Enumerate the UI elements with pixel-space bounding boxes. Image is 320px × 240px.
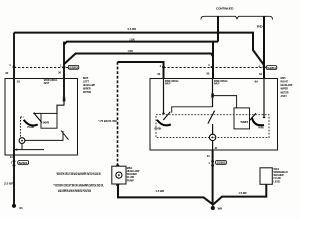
wire thick line D to pin 4 of right motor bbox=[118, 62, 164, 79]
pump motor dot bbox=[118, 174, 120, 176]
wire ground bus right to fluid switch bbox=[213, 184, 266, 204]
svg-text:6A: 6A bbox=[255, 79, 259, 83]
wire stub to blade pivot bbox=[34, 112, 41, 114]
pump motor circle bbox=[116, 172, 122, 178]
brush element on x64 wire bbox=[63, 97, 66, 101]
relay coil box (left) bbox=[41, 113, 57, 128]
svg-text:WIPER: WIPER bbox=[281, 87, 288, 91]
park cam arc left (right box) bbox=[157, 120, 171, 126]
svg-text:*.75 BK/YL/RD: *.75 BK/YL/RD bbox=[98, 119, 117, 123]
svg-text:ASSY: ASSY bbox=[281, 94, 288, 98]
svg-text:53: 53 bbox=[17, 79, 21, 83]
park cam arc right (right box) bbox=[252, 117, 264, 125]
connector label S28/3 left bbox=[68, 65, 79, 69]
connector label S28/1 bbox=[18, 161, 29, 165]
label M6/1 headlamp washer pump bbox=[127, 166, 140, 182]
svg-text:RD: RD bbox=[257, 25, 263, 29]
ground W9 (center bottom) bbox=[211, 205, 223, 211]
svg-text:PUMP: PUMP bbox=[127, 178, 134, 182]
wire diagonal bus C to node at x64 bbox=[64, 54, 76, 65]
svg-text:2.5 BR: 2.5 BR bbox=[4, 181, 14, 185]
svg-text:S28/1: S28/1 bbox=[19, 161, 29, 165]
wire x264 inside right box bbox=[263, 79, 265, 119]
svg-text:1 RD: 1 RD bbox=[128, 49, 133, 53]
wire RD from bracket down to connector bbox=[263, 16, 265, 78]
pump bottom pin tick bbox=[116, 184, 119, 186]
wire diagonal bus C to node at x212 bbox=[204, 54, 214, 57]
relay coil box (right) bbox=[234, 108, 250, 129]
pin tick x64 bbox=[63, 66, 66, 68]
svg-text:56R: 56R bbox=[240, 120, 248, 124]
svg-text:INPUT: INPUT bbox=[214, 82, 220, 86]
svg-text:S28/3: S28/3 bbox=[69, 66, 78, 70]
label M25 right headlamp wiper motor bbox=[281, 76, 293, 98]
svg-text:30: 30 bbox=[157, 72, 161, 76]
svg-text:HEADLAMP: HEADLAMP bbox=[281, 83, 293, 87]
branch to right relay coil bbox=[213, 96, 237, 108]
svg-text:MOTOR: MOTOR bbox=[281, 90, 289, 94]
svg-text:56R: 56R bbox=[43, 120, 50, 124]
svg-text:INPUT: INPUT bbox=[44, 81, 50, 85]
connector label S28/4 right bbox=[266, 66, 277, 70]
wire center x212 upper bbox=[212, 79, 214, 94]
junction dot center branch bbox=[212, 95, 214, 97]
ground G (left) bbox=[12, 204, 24, 210]
label W16 windshield washer fluid level bbox=[274, 167, 288, 183]
wire x163 inside right box bbox=[163, 79, 165, 114]
node blade pivot bbox=[33, 112, 35, 114]
wire motor return to x14 bbox=[14, 144, 44, 150]
wire contact to center bbox=[172, 107, 213, 113]
svg-text:64: 64 bbox=[259, 72, 263, 76]
svg-text:W9: W9 bbox=[218, 206, 223, 210]
washer fluid level switch box W16 bbox=[260, 168, 272, 185]
left motor box M25 bbox=[5, 79, 78, 156]
washer pump box M6/1 bbox=[112, 166, 126, 184]
wire x14 below left box to ground bbox=[13, 155, 15, 205]
wire motor to box bottom bbox=[212, 141, 214, 150]
label M25 left headlamp wiper motor bbox=[83, 76, 95, 94]
motor center dot (left) bbox=[21, 140, 23, 142]
svg-text:PARK: PARK bbox=[154, 126, 161, 130]
pin tick x163 bbox=[162, 66, 165, 68]
wire pump to ground bus bbox=[118, 186, 213, 205]
dashed link cam to motor bbox=[21, 117, 25, 138]
svg-text:S28/2: S28/2 bbox=[217, 161, 227, 165]
svg-text:31: 31 bbox=[10, 155, 14, 159]
svg-text:30: 30 bbox=[206, 72, 210, 76]
contact tick left cam bbox=[162, 113, 165, 114]
dashed switch assembly box (right) bbox=[156, 115, 269, 138]
svg-text:MOTOR: MOTOR bbox=[83, 90, 91, 94]
switch blade (left box) bbox=[35, 114, 42, 123]
pump top pin tick bbox=[116, 165, 119, 167]
svg-text:AND WIPER ARM IN PARKED POSITI: AND WIPER ARM IN PARKED POSITION bbox=[58, 189, 91, 193]
svg-text:* M25 WITH CIRCUIT 56R AND WAS: * M25 WITH CIRCUIT 56R AND WASH/WIPE SWI… bbox=[56, 172, 101, 176]
park cam arc (left box) bbox=[24, 120, 38, 126]
svg-text:M25: M25 bbox=[281, 76, 287, 80]
junction bus A / bracket wire bbox=[217, 31, 220, 34]
contact tick right cam bbox=[263, 117, 266, 118]
motor armature circle (right) bbox=[209, 134, 215, 140]
wire bus C (1 RD) bbox=[75, 53, 204, 55]
svg-text:INPUT: INPUT bbox=[165, 82, 171, 86]
wire bus A (top feed, 0.5 RD) bbox=[14, 33, 264, 68]
pin tick x264 bbox=[263, 66, 266, 68]
bracket CONTINUED bbox=[201, 16, 273, 19]
svg-text:PARK: PARK bbox=[27, 125, 34, 129]
wire bus B (1 BK) bbox=[64, 42, 218, 45]
svg-text:0.5 RD: 0.5 RD bbox=[128, 27, 137, 31]
junction dot return bbox=[16, 149, 18, 151]
connector separation line (dashed) bbox=[14, 67, 266, 69]
svg-text:30: 30 bbox=[5, 71, 9, 75]
pin tick x14 bbox=[13, 66, 16, 68]
svg-text:S28/4: S28/4 bbox=[267, 66, 276, 70]
wire dashed variant to washer pump bbox=[117, 62, 119, 165]
connector ticks (right bottom) bbox=[211, 161, 214, 163]
svg-text:LEVEL: LEVEL bbox=[274, 179, 281, 183]
pin tick x212 bbox=[211, 66, 214, 68]
wire from bracket to bus A bbox=[217, 16, 219, 41]
wire x64 element to relay bbox=[57, 102, 64, 114]
switch blade right (right box) bbox=[249, 113, 256, 121]
wire center to motor circle bbox=[212, 124, 214, 134]
connector label S28/2 bbox=[216, 161, 227, 165]
wire feed x64 from bus B down to left box bbox=[63, 42, 65, 98]
svg-text:31: 31 bbox=[207, 154, 211, 158]
svg-text:CONTINUED: CONTINUED bbox=[216, 7, 234, 11]
svg-text:** M25 WITH CIRCUIT 56R OR, WA: ** M25 WITH CIRCUIT 56R OR, WASH/WIPE SW… bbox=[54, 184, 104, 188]
switch blade center bbox=[208, 111, 215, 124]
mechanical link diagonal (left box) bbox=[61, 131, 69, 140]
wire center to junction bbox=[212, 98, 214, 107]
svg-text:30: 30 bbox=[58, 71, 62, 75]
motor dot (right) bbox=[212, 137, 214, 139]
wire x213 to ground bbox=[212, 150, 214, 204]
wire feed x14 from bus A down through left box bbox=[13, 33, 15, 155]
svg-text:1.5 BR: 1.5 BR bbox=[155, 189, 164, 193]
brush element center bbox=[211, 93, 214, 97]
switch blade left (right box) bbox=[163, 112, 170, 120]
connector ticks (left bottom) bbox=[13, 161, 16, 163]
wire feed x213 from bus B to right box bbox=[212, 42, 214, 79]
svg-text:PARK: PARK bbox=[258, 126, 264, 130]
wire from motor right to riser bbox=[25, 131, 63, 140]
svg-text:1.5 BR: 1.5 BR bbox=[238, 191, 246, 195]
motor armature circle (left) bbox=[19, 138, 25, 144]
right motor box M25 right bbox=[150, 79, 278, 151]
svg-text:1 BK: 1 BK bbox=[129, 38, 135, 42]
svg-text:RIGHT: RIGHT bbox=[281, 80, 289, 84]
